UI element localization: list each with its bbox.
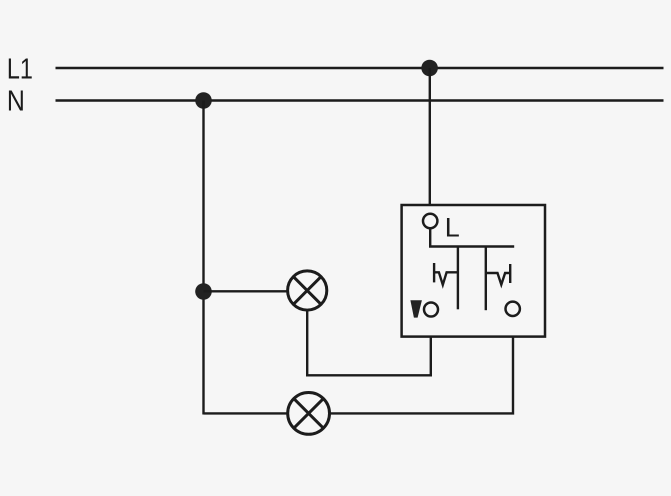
wire from L1 down to switch terminal L (429, 68, 431, 213)
wire L1 line (56, 67, 664, 69)
lamp E2 (288, 393, 330, 435)
switch contact S2 (486, 264, 510, 285)
terminal 2 (switched output) (506, 302, 520, 316)
wire N line (56, 99, 664, 101)
wire N to lamp E2 (204, 412, 289, 414)
switch contact S1 (434, 263, 458, 285)
wire lamp E1 to switch terminal 1 (307, 312, 431, 376)
wire branch to contact S1 (457, 247, 459, 310)
junction dot node A (lamp 1 branch) (195, 283, 212, 300)
wire from N down to lamp row 2 (202, 101, 204, 415)
terminal 1 (switched output, arrow) (424, 303, 438, 317)
wire node A to lamp E1 (204, 290, 289, 292)
wire branch to contact S2 (485, 247, 487, 311)
wire lamp E2 to switch terminal 2 (329, 317, 513, 414)
wire terminal L to distribution bar (430, 229, 514, 247)
terminal L (input) (423, 214, 437, 228)
junction dot on L1 (421, 60, 438, 77)
svg-text:L: L (445, 213, 460, 243)
svg-text:L1: L1 (7, 53, 33, 85)
arrow marker (terminal 1) (410, 300, 422, 317)
switch box U1 (series switch) (402, 205, 545, 337)
svg-text:N: N (7, 86, 25, 118)
junction dot on N (195, 92, 212, 109)
lamp E1 (288, 271, 327, 310)
